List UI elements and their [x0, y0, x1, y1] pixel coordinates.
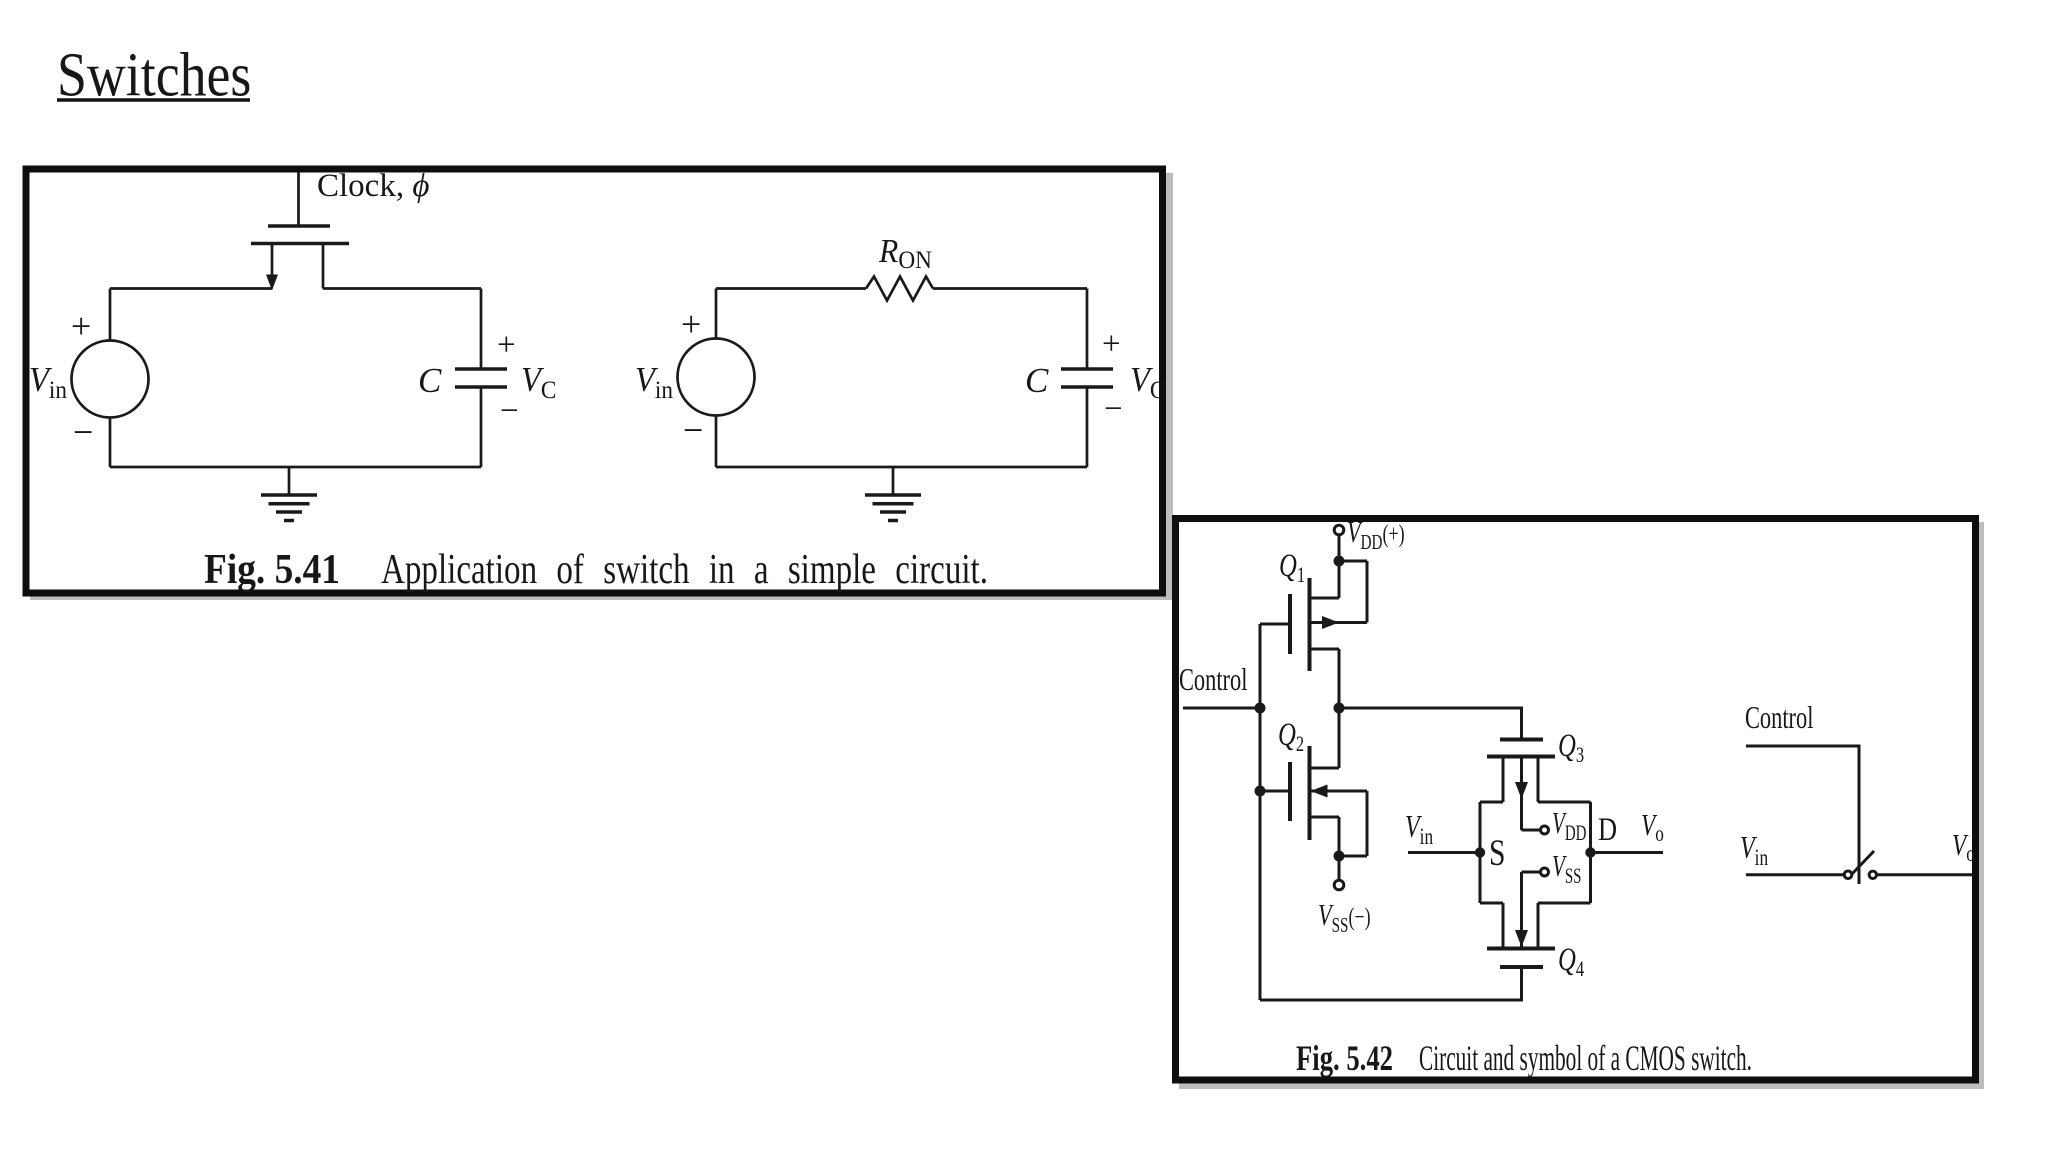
svg-text:Clock, ϕ: Clock, ϕ	[317, 168, 429, 204]
wire: inverter output to Q3 gate	[1339, 708, 1522, 740]
wire: control to switch	[1746, 746, 1859, 884]
terminal VDD(+)	[1334, 525, 1344, 556]
wire: gate bus vertical	[1259, 624, 1262, 1000]
wire: bottom (right circuit)	[716, 466, 1087, 469]
svg-text:+: +	[71, 306, 91, 346]
node: Q2 gate junction	[1255, 786, 1266, 797]
svg-text:Circuit and symbol of a CMOS s: Circuit and symbol of a CMOS switch.	[1419, 1038, 1752, 1078]
node: inverter output	[1334, 703, 1345, 714]
caption Fig. 5.41	[204, 547, 988, 593]
capacitor C (right circuit)	[1061, 289, 1113, 468]
terminal VSS (tg)	[1541, 868, 1549, 876]
node: control junction	[1255, 703, 1266, 714]
source Vin (right circuit)	[678, 289, 755, 468]
svg-text:+: +	[681, 304, 701, 344]
wire: D to Vo	[1591, 851, 1664, 854]
svg-text:Control: Control	[1179, 661, 1248, 697]
wire: bottom rail to Q4 gate	[1260, 967, 1522, 1000]
wire: transmission gate frame	[1480, 802, 1591, 903]
svg-text:Control: Control	[1745, 699, 1814, 735]
wire: top wire (right circuit)	[716, 287, 1087, 290]
terminal VSS(-)	[1334, 856, 1344, 890]
figure 5.41 frame	[26, 169, 1173, 600]
source Vin (left circuit)	[72, 289, 149, 468]
svg-text:−: −	[500, 393, 519, 429]
node: VDD junction	[1334, 556, 1345, 567]
wire: Vin to S	[1408, 851, 1480, 854]
transistor Q3	[1487, 740, 1555, 831]
ground (right circuit)	[865, 467, 921, 521]
transistor Q4	[1487, 872, 1555, 967]
svg-text:Application of switch in a sim: Application of switch in a simple circui…	[381, 547, 988, 593]
svg-text:Fig. 5.42: Fig. 5.42	[1296, 1038, 1393, 1078]
transistor Q1	[1260, 561, 1367, 708]
switch blade	[1852, 851, 1875, 875]
node: Q2 source junction	[1334, 851, 1345, 862]
switch contacts	[1844, 871, 1876, 879]
svg-text:+: +	[1102, 326, 1121, 362]
wire: top right segment	[323, 287, 481, 290]
svg-text:S: S	[1489, 833, 1505, 874]
svg-text:C: C	[418, 361, 442, 400]
svg-text:C: C	[1025, 361, 1049, 400]
terminal VDD (gate bulk)	[1541, 826, 1549, 834]
title Switches	[57, 40, 251, 109]
resistor RON	[866, 277, 933, 301]
svg-text:−: −	[73, 412, 93, 452]
svg-text:−: −	[1104, 391, 1123, 427]
svg-text:D: D	[1598, 811, 1617, 847]
wire: bottom (left circuit)	[110, 466, 481, 469]
caption Fig. 5.42	[1296, 1038, 1752, 1078]
svg-text:+: +	[497, 327, 516, 363]
ground (left circuit)	[261, 467, 317, 521]
node D	[1585, 847, 1595, 857]
figure 5.42 frame	[1176, 519, 1985, 1090]
wire: Vin lead (switch)	[1746, 873, 1844, 876]
capacitor C (left circuit)	[455, 289, 507, 468]
svg-text:Fig. 5.41: Fig. 5.41	[204, 547, 340, 593]
wire: Vo lead (switch)	[1877, 873, 1973, 876]
transistor Q2	[1260, 708, 1367, 856]
wire: clock gate lead	[297, 172, 300, 226]
wire: control input	[1183, 707, 1260, 710]
transistor M1 (MOS switch)	[251, 226, 349, 291]
node S	[1475, 847, 1485, 857]
svg-text:−: −	[683, 410, 703, 450]
wire: top left segment	[110, 287, 272, 290]
